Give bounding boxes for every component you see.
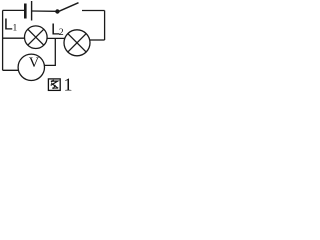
switch pivot node dot <box>55 9 59 13</box>
wire top-left (battery negative to left rail) <box>3 9 24 11</box>
wire between lamps L1 and L2 <box>47 37 65 39</box>
voltmeter U (circle) <box>18 54 44 80</box>
battery negative plate (short thick) <box>24 4 27 19</box>
switch blade (open) <box>59 3 78 12</box>
wire bottom-left to voltmeter <box>3 69 19 71</box>
wire right rail vertical <box>104 11 106 41</box>
svg-text:V: V <box>29 55 40 71</box>
caption character TU (figure) drawn as strokes <box>48 79 60 91</box>
wire left rail vertical <box>2 10 4 70</box>
battery positive plate (long thin) <box>31 1 32 21</box>
svg-text:1: 1 <box>64 75 73 93</box>
svg-text:1: 1 <box>13 24 18 34</box>
lamp L2 <box>64 30 90 56</box>
wire battery positive to switch node <box>32 10 56 12</box>
wire voltmeter right terminal <box>45 38 56 65</box>
wire right rail to lamp L2 <box>90 39 105 41</box>
wire left to lamp L1 <box>3 37 25 39</box>
wire switch fixed contact to right rail <box>82 10 105 12</box>
lamp L1 <box>25 26 48 49</box>
svg-text:2: 2 <box>59 28 64 38</box>
